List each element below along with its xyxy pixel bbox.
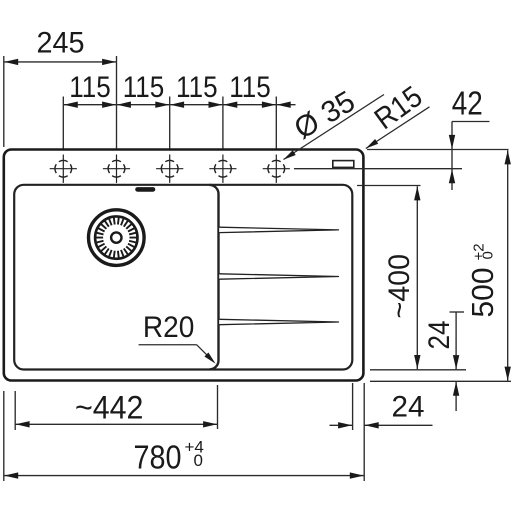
bowl divider with R20 corners bbox=[210, 185, 219, 370]
svg-text:0: 0 bbox=[479, 251, 496, 259]
dimension 42 (top edge to hole centerline) bbox=[294, 84, 509, 190]
dimensions 115 x4 (hole spacings) bbox=[63, 71, 295, 154]
drainboard grooves x3 bbox=[219, 227, 338, 232]
drain strainer bbox=[89, 210, 145, 266]
dimension ~442 (bowl width) bbox=[15, 385, 217, 430]
dimension 500 +2/0 (overall depth) bbox=[370, 150, 511, 381]
leader R15 (outer corner radius) bbox=[366, 80, 430, 148]
leader R20 (bowl corner radius) bbox=[139, 311, 216, 364]
bowl overflow slot bbox=[138, 187, 154, 192]
svg-text:24: 24 bbox=[392, 391, 425, 424]
svg-text:780: 780 bbox=[134, 438, 182, 475]
faucet holes x5 with centerlines bbox=[50, 155, 290, 183]
svg-text:42: 42 bbox=[452, 84, 483, 121]
svg-text:115: 115 bbox=[229, 71, 271, 104]
dimension ~400 (bowl depth extent) bbox=[357, 186, 466, 370]
svg-text:0: 0 bbox=[194, 451, 203, 470]
svg-text:~400: ~400 bbox=[383, 254, 416, 319]
svg-text:500: 500 bbox=[465, 268, 500, 318]
dimension 24 (bottom right, rim width horizontal) bbox=[330, 383, 433, 481]
svg-text:115: 115 bbox=[123, 71, 165, 104]
outer rim outline 780x500 bbox=[4, 150, 364, 381]
leader diameter 35 bbox=[283, 85, 384, 160]
dimension 780 +4/0 (overall width) bbox=[4, 391, 364, 481]
dimension 24 (right side, rim width vertical) bbox=[423, 312, 464, 411]
svg-text:115: 115 bbox=[69, 71, 111, 104]
svg-text:115: 115 bbox=[176, 71, 218, 104]
svg-text:~442: ~442 bbox=[75, 390, 144, 426]
inner basin/drainboard outline bbox=[14, 185, 352, 370]
svg-text:245: 245 bbox=[37, 27, 85, 60]
deck overflow rectangle bbox=[333, 161, 354, 168]
svg-text:24: 24 bbox=[423, 321, 456, 350]
svg-text:R20: R20 bbox=[143, 311, 195, 344]
dimension 245 (left edge to hole 2) bbox=[4, 27, 117, 155]
